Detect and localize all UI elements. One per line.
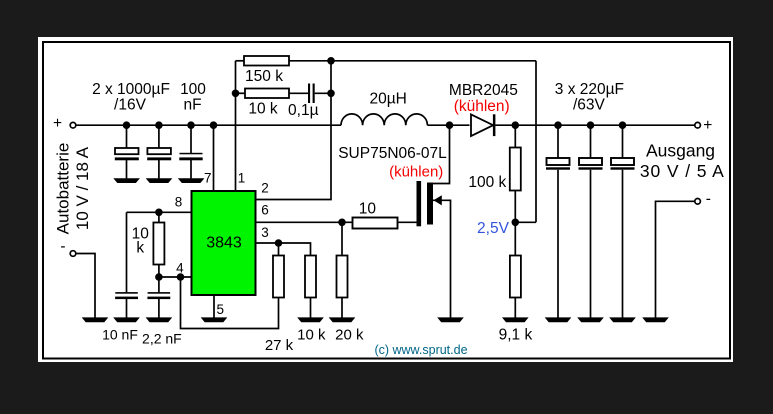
svg-text:3: 3: [261, 225, 269, 240]
svg-text:Ausgang: Ausgang: [646, 141, 715, 161]
ground: [545, 317, 572, 322]
junction dots output rail: [554, 121, 562, 129]
ground: [642, 317, 669, 322]
ground: [113, 317, 140, 322]
resistor 10k bottom: [305, 256, 316, 319]
svg-text:(kühlen): (kühlen): [389, 164, 443, 181]
svg-text:100 k: 100 k: [468, 174, 506, 191]
junction 20k top: [338, 219, 346, 227]
resistor 150k: [236, 56, 332, 66]
svg-text:/16V: /16V: [114, 97, 147, 114]
junction pin3 node: [275, 239, 283, 247]
svg-text:+: +: [703, 117, 712, 134]
wire minus output: [656, 201, 695, 318]
svg-text:0,1µ: 0,1µ: [288, 102, 319, 119]
svg-text:nF: nF: [183, 97, 201, 114]
svg-text:10 k: 10 k: [297, 327, 326, 344]
pin 1 wire: [235, 61, 237, 191]
svg-text:(c) www.sprut.de: (c) www.sprut.de: [374, 343, 467, 357]
svg-text:2: 2: [261, 181, 269, 196]
wire feedback down: [535, 61, 537, 223]
svg-text:10: 10: [359, 201, 377, 218]
svg-text:2,2 nF: 2,2 nF: [142, 331, 182, 347]
capacitor 220uF no.3: [611, 125, 635, 318]
ground: [201, 317, 228, 322]
junction 150k right: [327, 57, 335, 65]
svg-text:+: +: [53, 115, 62, 132]
pin 5 wire: [213, 295, 215, 318]
resistor 10k vertical left: [153, 212, 164, 277]
inductor 20uH: [341, 114, 427, 125]
diode MBR2045: [471, 114, 495, 136]
capacitor 100nF input: [179, 125, 202, 178]
pin 2 wire: [256, 61, 332, 200]
svg-text:9,1 k: 9,1 k: [499, 327, 533, 344]
wire output rail: [495, 124, 695, 126]
ground: [113, 178, 140, 183]
wire drain: [433, 125, 450, 183]
pin 6 wire: [256, 221, 353, 223]
svg-text:-: -: [60, 238, 65, 255]
capacitor 220uF no.1: [546, 125, 570, 318]
ground: [297, 317, 324, 322]
svg-text:10 nF: 10 nF: [102, 327, 138, 343]
ground: [146, 317, 173, 322]
junction dots on input rail: [123, 121, 131, 129]
capacitor 2.2nF: [147, 277, 170, 318]
svg-text:20 k: 20 k: [335, 327, 364, 344]
svg-text:SUP75N06-07L: SUP75N06-07L: [338, 145, 447, 162]
junction 100k top: [512, 121, 520, 129]
junction pin8 node: [155, 209, 163, 217]
svg-text:7: 7: [204, 171, 212, 186]
wire inductor to diode: [427, 124, 469, 126]
pin 3 wire: [256, 243, 311, 256]
input plus terminal: [53, 115, 76, 132]
svg-text:/63V: /63V: [573, 97, 606, 114]
wire source: [433, 200, 451, 318]
wire gate: [398, 221, 417, 223]
wire input rail: [76, 124, 341, 126]
svg-text:1: 1: [238, 171, 246, 186]
svg-text:k: k: [136, 240, 144, 257]
svg-text:-: -: [706, 191, 711, 208]
transistor SUP75N06 channel bar: [427, 183, 433, 225]
svg-text:27 k: 27 k: [265, 337, 294, 354]
transistor SUP75N06 gate bar: [417, 181, 422, 226]
pin 8 wire: [127, 211, 192, 213]
resistor 27k: [181, 243, 285, 329]
ground: [437, 317, 464, 322]
resistor 20k: [337, 222, 348, 318]
svg-text:5: 5: [217, 302, 225, 317]
svg-text:MBR2045: MBR2045: [449, 82, 518, 99]
svg-text:30 V / 5 A: 30 V / 5 A: [640, 161, 725, 181]
svg-text:3843: 3843: [206, 235, 242, 252]
svg-text:150 k: 150 k: [245, 68, 283, 85]
junction 0.1u right: [327, 90, 335, 98]
svg-text:10 k: 10 k: [248, 101, 278, 118]
ground: [82, 317, 109, 322]
svg-text:20µH: 20µH: [370, 91, 407, 108]
ground: [502, 317, 529, 322]
svg-text:10 V / 18 A: 10 V / 18 A: [73, 146, 92, 230]
ground: [577, 317, 604, 322]
IC 3843: [192, 191, 256, 295]
output minus terminal: [695, 191, 711, 208]
capacitor 220uF no.2: [579, 125, 603, 318]
panel border frame: [43, 42, 730, 359]
wire feedback jog: [515, 221, 536, 223]
svg-text:6: 6: [261, 203, 269, 218]
ground: [146, 178, 173, 183]
junction drain node: [446, 121, 454, 129]
schematic panel: [38, 37, 733, 362]
resistor 10k top: [236, 89, 309, 99]
source arrow: [434, 195, 442, 205]
svg-text:Autobatterie: Autobatterie: [54, 143, 73, 235]
capacitor 0.1u: [308, 84, 331, 104]
junction pin4 node: [155, 273, 163, 281]
pin 7 wire: [213, 125, 215, 191]
pin 4 wire: [159, 276, 192, 278]
node 2.5V: [512, 219, 520, 227]
wire feedback top: [331, 60, 536, 62]
wire minus input: [76, 254, 95, 319]
svg-text:8: 8: [175, 195, 183, 210]
output plus terminal: [695, 117, 713, 134]
ground: [329, 317, 356, 322]
svg-text:2,5V: 2,5V: [477, 220, 510, 237]
capacitor 10nF: [115, 212, 138, 318]
resistor 100k: [510, 125, 521, 255]
svg-text:(kühlen): (kühlen): [454, 98, 510, 115]
junction 10k top left: [232, 90, 240, 98]
ground: [609, 317, 636, 322]
resistor 10 gate: [353, 218, 398, 229]
capacitor 1000uF no.1: [115, 125, 139, 178]
input minus terminal: [60, 238, 75, 256]
resistor 9.1k: [510, 256, 521, 319]
capacitor 1000uF no.2: [147, 125, 171, 178]
ground: [178, 178, 205, 183]
